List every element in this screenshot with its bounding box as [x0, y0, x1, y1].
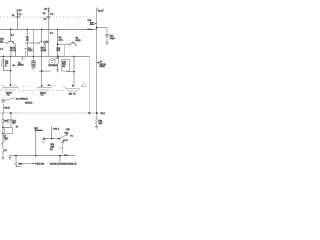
svg-text:See TABLE 2: See TABLE 2	[16, 97, 29, 100]
svg-text:.05 &: .05 &	[41, 50, 46, 52]
wire switch line	[44, 138, 59, 140]
resistor R3 drop	[32, 29, 34, 56]
tube circle V3 partial	[83, 84, 86, 87]
wire bottom bus 2	[10, 155, 75, 157]
svg-text:3.4: 3.4	[2, 86, 5, 88]
transformer T1 box	[4, 127, 12, 133]
wire cathode drop	[21, 56, 23, 60]
svg-text:S1A: S1A	[65, 131, 69, 134]
wire jumper mid	[39, 56, 51, 86]
svg-text:NOTE 2: NOTE 2	[25, 103, 33, 105]
wire AGC dashed line top	[0, 16, 97, 18]
transformer winding T1 secondary	[3, 88, 19, 97]
resistor R16	[15, 156, 23, 167]
wire V2 cathode	[57, 56, 60, 69]
inductor L2	[28, 44, 47, 56]
wire B+ bus	[0, 28, 97, 30]
svg-text:NOTE: VOLTAGES MEAS. W: NOTE: VOLTAGES MEAS. W	[50, 163, 76, 166]
ground for C32	[105, 42, 108, 44]
wire osc tap	[2, 127, 4, 138]
capacitor C32	[106, 35, 109, 42]
resistor R12	[95, 113, 103, 129]
svg-text:V2 12AU6: V2 12AU6	[48, 64, 58, 67]
tube V2	[48, 58, 58, 67]
wire AGC drop left	[10, 56, 12, 85]
capacitor C1	[2, 56, 5, 70]
node lamp tap 2	[47, 8, 50, 30]
svg-text:2.2 0: 2.2 0	[62, 86, 66, 88]
transformer winding T2 secondary	[37, 88, 52, 97]
svg-text:6AU6: 6AU6	[76, 39, 82, 42]
wire coupling	[3, 126, 11, 128]
resistor R10 drop	[63, 45, 65, 56]
ground mid	[8, 156, 11, 160]
capacitor C15	[34, 127, 43, 156]
svg-text:.05μF: .05μF	[110, 38, 116, 40]
resistor R9	[3, 104, 10, 114]
capacitor C16	[52, 127, 60, 139]
capacitor C8a	[32, 56, 36, 69]
wire collector drop Q2	[41, 29, 43, 40]
wire screen drop stage3	[57, 29, 59, 56]
svg-text:4.7K: 4.7K	[59, 39, 64, 41]
capacitor C14	[10, 112, 17, 127]
svg-text:0: 0	[30, 86, 31, 88]
trimmer arrow	[1, 139, 7, 144]
svg-text:= 5.2: = 5.2	[51, 86, 55, 88]
arrow test point on main vertical	[97, 62, 99, 64]
jack J1	[2, 98, 15, 103]
capacitor C17	[62, 142, 65, 155]
wire main vertical B+ feed	[96, 8, 98, 113]
capacitor C31	[88, 20, 97, 26]
svg-text:2.2K: 2.2K	[28, 50, 33, 52]
node AGC junction dots	[10, 84, 12, 86]
capacitor C5 plates	[25, 50, 27, 57]
inductor L1	[10, 44, 17, 57]
node lamp tap 1	[16, 9, 19, 29]
wire bottom bus	[0, 112, 22, 114]
wire screen bus	[0, 55, 90, 57]
transistor Q2	[25, 40, 45, 44]
transformer winding T3 secondary	[66, 89, 79, 96]
svg-text:V1B: V1B	[45, 42, 49, 44]
wire to R17	[22, 163, 34, 165]
svg-text:0 v: 0 v	[70, 136, 73, 138]
switch S1	[60, 129, 71, 139]
svg-text:1.1: 1.1	[23, 86, 26, 88]
svg-text:12BA6: 12BA6	[18, 64, 25, 67]
wire screen drop stage2	[26, 29, 28, 56]
svg-text:C16 .1: C16 .1	[53, 128, 60, 130]
svg-text:R9 27: R9 27	[5, 108, 11, 110]
wire AF out	[59, 156, 61, 163]
wire base feed Q3	[58, 43, 71, 45]
wire jumper left	[3, 70, 10, 72]
transistor Q3	[69, 41, 76, 46]
ground left column	[1, 154, 4, 160]
ground V2 cathode	[56, 70, 59, 72]
resistor R10	[2, 113, 9, 127]
wire detector drop	[73, 56, 75, 85]
svg-text:1M: 1M	[62, 66, 65, 68]
inductor L6	[3, 138, 8, 154]
wire AGC dashed line 2	[0, 90, 66, 92]
wire branch to C32	[97, 28, 107, 34]
label voltage row	[2, 85, 84, 88]
capacitor box C12	[62, 60, 70, 72]
wire stage2-3 link	[48, 29, 50, 56]
svg-text:R17 220: R17 220	[37, 164, 45, 166]
ground small faint	[42, 142, 45, 144]
svg-text:0 2.2: 0 2.2	[13, 86, 17, 88]
transistor Q1	[0, 39, 14, 44]
capacitor C14a mid	[7, 119, 9, 123]
wire collector drop Q1	[10, 29, 12, 39]
wire jumper right	[66, 71, 74, 73]
svg-text:80MA: 80MA	[100, 65, 106, 68]
svg-text:C3 .05: C3 .05	[10, 50, 17, 52]
